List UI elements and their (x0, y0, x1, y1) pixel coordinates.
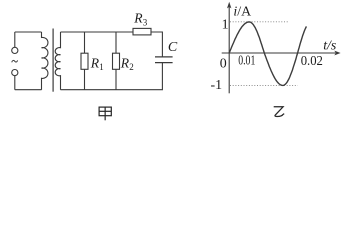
resistor R2 (113, 53, 120, 69)
y axis (228, 7, 230, 94)
svg-text:1: 1 (99, 62, 104, 72)
wire: R1 branch bottom (84, 69, 86, 89)
svg-text:R: R (133, 11, 143, 26)
x axis (222, 52, 336, 54)
AC source terminal (bottom) (12, 70, 18, 76)
svg-text:-1: -1 (211, 78, 223, 93)
transformer core (52, 29, 54, 92)
wire: primary loop top (15, 31, 42, 33)
dotted guide line at +1 (230, 21, 289, 23)
inductor: transformer primary winding (42, 32, 48, 90)
svg-text:0.02: 0.02 (301, 54, 323, 69)
AC source terminal (top) (12, 47, 18, 53)
sine current curve (229, 22, 306, 86)
svg-text:R: R (90, 56, 100, 71)
y axis arrowhead (227, 2, 231, 9)
svg-text:2: 2 (129, 62, 134, 72)
wire: primary left leads to AC source (14, 32, 16, 90)
resistor R1 (81, 53, 88, 69)
wire: R3 to top-right corner down to capacitor (151, 32, 162, 57)
svg-text:0.01: 0.01 (238, 53, 255, 68)
wire: secondary top to R3 (61, 31, 134, 33)
wire: secondary bottom rail (61, 63, 163, 90)
label R2 (120, 55, 134, 72)
wire: R2 branch top (115, 32, 117, 53)
svg-text:t/s: t/s (323, 39, 336, 54)
caption jia (甲) drawn as strokes (99, 107, 111, 120)
svg-text:1: 1 (222, 18, 229, 33)
wire: R2 branch bottom (115, 69, 117, 89)
svg-text:i/A: i/A (233, 4, 251, 19)
dotted guide line at -1 (230, 84, 298, 86)
label R3 (133, 11, 148, 28)
x axis arrowhead (334, 51, 340, 56)
svg-text:C: C (168, 40, 178, 55)
svg-text:0: 0 (220, 57, 227, 72)
inductor: transformer secondary winding (55, 32, 60, 90)
svg-text:3: 3 (143, 18, 148, 28)
wire: R1 branch top (84, 32, 86, 53)
capacitor C plates (155, 57, 173, 63)
label R1 (90, 56, 104, 73)
caption yi (乙) drawn as strokes (274, 107, 285, 117)
wire: primary loop bottom (15, 89, 42, 91)
resistor R3 (133, 28, 151, 35)
svg-text:R: R (120, 55, 130, 70)
AC source tilde (12, 60, 18, 62)
